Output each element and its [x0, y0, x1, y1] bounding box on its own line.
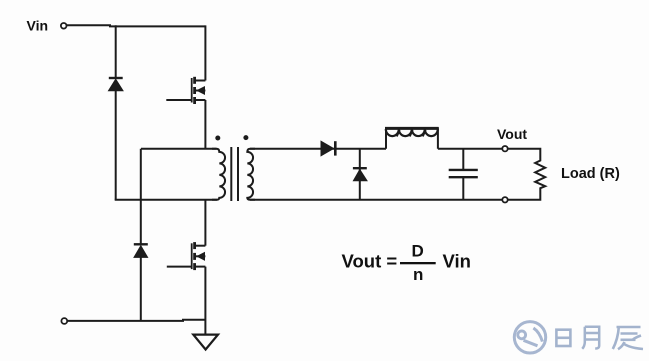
- svg-text:Vout: Vout: [497, 126, 527, 142]
- watermark character yue: [582, 327, 599, 349]
- wire secondary bottom: [250, 199, 502, 201]
- svg-text:D: D: [412, 241, 424, 260]
- svg-text:n: n: [413, 265, 423, 284]
- capacitor C1: [449, 149, 478, 200]
- diode D3: [321, 141, 335, 156]
- formula Vout = D/n Vin: [342, 241, 471, 283]
- transformer T1 core: [231, 147, 238, 201]
- wire Q1 drain: [204, 25, 206, 80]
- watermark logo: [514, 322, 545, 353]
- polarity dot secondary: [243, 135, 248, 140]
- svg-text:Vin: Vin: [443, 251, 471, 272]
- wire top rail: [67, 25, 206, 26]
- transistor Q1: [166, 77, 205, 104]
- wire inductor to Vout: [438, 148, 503, 150]
- wire D2 rail lower: [140, 257, 142, 322]
- transistor Q2: [167, 242, 206, 270]
- wire Q2 source to ground: [204, 267, 206, 335]
- output terminal Vout-: [502, 197, 507, 202]
- watermark character chen: [613, 327, 643, 349]
- wire primary bottom: [115, 199, 217, 201]
- svg-text:Vin: Vin: [27, 18, 49, 34]
- input terminal return: [61, 318, 67, 324]
- ground: [193, 335, 218, 350]
- output terminal Vout+: [502, 146, 507, 151]
- transformer T1 primary winding: [212, 149, 225, 200]
- watermark character ri: [556, 330, 570, 346]
- wire left clamp rail lower: [115, 90, 117, 200]
- diode D4 freewheel: [353, 149, 367, 200]
- resistor Load: [508, 149, 545, 200]
- wire D2 rail upper: [140, 149, 142, 245]
- wire left clamp rail upper: [115, 25, 117, 78]
- inductor L1: [385, 128, 439, 148]
- wire Q1 source to primary top: [204, 100, 206, 149]
- polarity dot primary: [215, 136, 220, 141]
- diode D2: [134, 244, 148, 257]
- svg-text:Load (R): Load (R): [561, 166, 620, 182]
- svg-text:Vout =: Vout =: [342, 251, 398, 272]
- wire Q2 drain: [204, 200, 206, 246]
- diode D1: [109, 78, 124, 91]
- input terminal Vin: [61, 23, 67, 29]
- wire bottom return: [67, 320, 205, 321]
- transformer T1 secondary winding: [247, 149, 255, 200]
- wire secondary top: [250, 148, 386, 150]
- wire primary top: [141, 148, 217, 150]
